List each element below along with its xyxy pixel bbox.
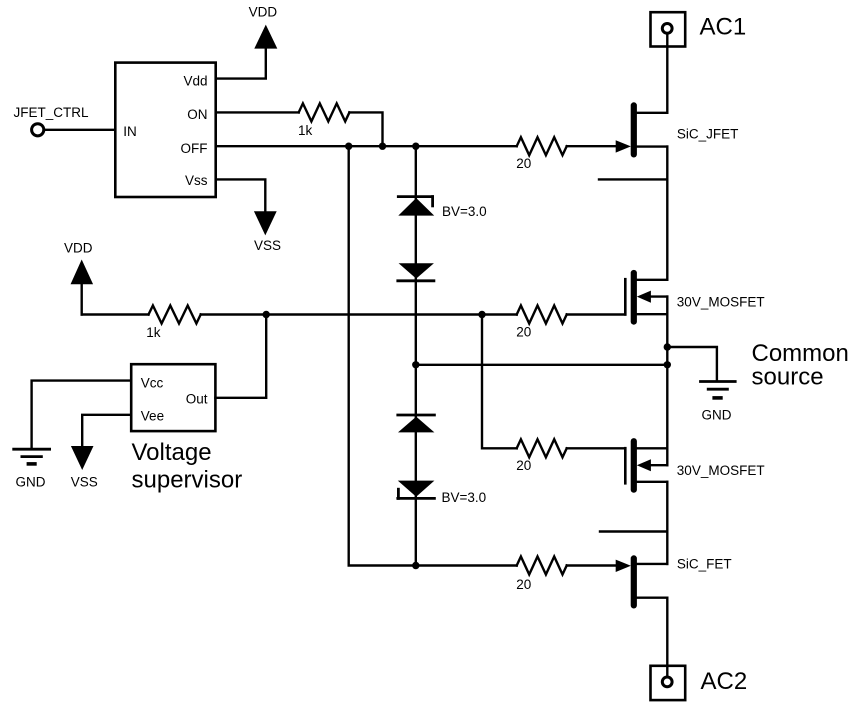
- M2 channel bar: [631, 438, 637, 493]
- resistor R2 20: [517, 137, 567, 155]
- wire R5 to Q2 gate: [567, 564, 617, 566]
- terminal AC2 square: [651, 666, 686, 700]
- resistor R6 1k: [149, 306, 201, 324]
- wire Vss pin to VSS arrow: [216, 179, 265, 212]
- wire mid gate line: [201, 313, 517, 315]
- Q2 gate arrow: [616, 560, 631, 572]
- svg-text:Vss: Vss: [185, 173, 208, 188]
- resistor R4 20: [517, 439, 567, 457]
- junction dot zener mid: [412, 361, 419, 368]
- wire R1 to OFF net: [349, 112, 382, 146]
- wire ON pin to resistor R1: [216, 111, 299, 113]
- svg-text:supervisor: supervisor: [132, 467, 243, 494]
- M2 source lead: [637, 447, 668, 449]
- junction dot OFF/zener chain: [412, 143, 419, 150]
- voltage supervisor U2 box: [131, 364, 215, 431]
- Q2 source lead: [637, 563, 668, 565]
- terminal AC2 circle: [662, 677, 672, 687]
- resistor R1 1k: [299, 103, 350, 121]
- wire JFET_CTRL to IN: [45, 129, 115, 131]
- svg-text:OFF: OFF: [181, 141, 208, 156]
- zener D4 triangle: [398, 481, 435, 497]
- wire R2 to Q1 gate: [567, 145, 617, 147]
- ground GND right bar3: [714, 396, 721, 400]
- terminal JFET_CTRL: [32, 124, 44, 136]
- wire AC1 to Q1 drain: [666, 34, 668, 113]
- junction dot mid/Out: [263, 311, 270, 318]
- wire VDD to resistor R6: [82, 313, 149, 315]
- M1 body arrow: [637, 291, 651, 303]
- zener chain wire: [415, 146, 417, 565]
- svg-text:ON: ON: [187, 107, 207, 122]
- svg-text:1k: 1k: [146, 325, 161, 340]
- ground GND right bar2: [708, 388, 727, 391]
- wire R3 to M1 gate: [567, 313, 626, 315]
- ground GND left bar1: [14, 448, 50, 451]
- zener D1 triangle: [398, 198, 434, 216]
- transistor Q1 SiC_JFET channel bar: [631, 102, 637, 157]
- svg-text:20: 20: [516, 324, 531, 339]
- ground GND left bar2: [22, 455, 42, 458]
- junction dot mid/M2 gate drop: [478, 311, 485, 318]
- transistor M2 30V_MOSFET gate bar: [624, 448, 627, 483]
- power VDD arrow top: [256, 27, 275, 47]
- svg-text:source: source: [752, 364, 824, 391]
- svg-text:20: 20: [516, 577, 531, 592]
- svg-text:Vee: Vee: [141, 408, 164, 423]
- M2 drain lead: [637, 481, 668, 483]
- power VSS arrow left: [73, 447, 92, 467]
- svg-text:AC2: AC2: [701, 668, 748, 695]
- Q1 source stub line: [599, 178, 667, 180]
- svg-text:BV=3.0: BV=3.0: [442, 204, 487, 219]
- svg-text:Out: Out: [186, 391, 208, 406]
- ground GND right bar1: [701, 380, 736, 383]
- wire drop to resistor R4: [482, 315, 517, 449]
- svg-text:VDD: VDD: [249, 4, 278, 19]
- Q1 gate arrow: [616, 140, 631, 152]
- M1 body lead: [650, 295, 667, 297]
- wire common source rail: [666, 297, 668, 466]
- M1 channel bar: [631, 270, 637, 325]
- svg-text:Voltage: Voltage: [132, 439, 212, 466]
- svg-text:Vcc: Vcc: [141, 376, 164, 391]
- wire M2 drain rail down: [666, 482, 668, 564]
- svg-text:VSS: VSS: [254, 238, 281, 253]
- wire Vee to VSS arrow: [82, 415, 131, 448]
- wire common source to GND: [667, 347, 717, 380]
- resistor R3 20: [517, 306, 567, 324]
- terminal AC1 circle: [662, 24, 672, 34]
- wire OFF to SiC_FET gate line: [349, 146, 517, 565]
- svg-text:SiC_JFET: SiC_JFET: [677, 126, 739, 141]
- Q2 drain lead: [637, 597, 668, 599]
- M1 drain lead: [637, 279, 668, 281]
- terminal AC1 square: [651, 12, 686, 46]
- transistor Q2 SiC_FET channel bar: [631, 555, 637, 608]
- zener D1 cathode hook: [431, 197, 434, 206]
- junction dot common source / GND stub: [664, 343, 671, 350]
- zener D2 triangle: [399, 263, 434, 278]
- svg-text:20: 20: [516, 458, 531, 473]
- M2 body arrow: [637, 459, 651, 471]
- power VDD arrow left: [72, 262, 91, 283]
- gate driver U1 box: [115, 63, 215, 197]
- svg-text:30V_MOSFET: 30V_MOSFET: [677, 463, 765, 478]
- Q1 drain lead: [637, 112, 668, 114]
- junction dot OFF/R1: [379, 143, 386, 150]
- wire Out to mid line: [215, 315, 266, 398]
- junction dot zener bottom: [412, 562, 419, 569]
- svg-text:GND: GND: [702, 408, 732, 423]
- junction dot OFF/SiC_FET gate drop: [345, 143, 352, 150]
- svg-text:Vdd: Vdd: [183, 74, 207, 89]
- ground GND left bar3: [28, 462, 35, 466]
- Q1 source lead: [637, 145, 668, 147]
- M1 source lead: [637, 313, 668, 315]
- svg-text:BV=3.0: BV=3.0: [442, 490, 487, 505]
- zener D4 cathode bar: [398, 497, 435, 500]
- wire Vdd pin to VDD arrow: [216, 47, 266, 79]
- resistor R5 20: [517, 557, 567, 575]
- svg-text:1k: 1k: [298, 123, 313, 138]
- junction dot common source / zener mid: [664, 361, 671, 368]
- svg-text:30V_MOSFET: 30V_MOSFET: [677, 294, 765, 309]
- wire Vcc to GND: [32, 381, 132, 448]
- Q2 source stub line: [600, 530, 667, 532]
- zener D4 cathode hook: [397, 489, 400, 498]
- wire zener mid to common source: [416, 364, 668, 366]
- wire OFF pin line: [216, 145, 517, 147]
- svg-text:GND: GND: [16, 475, 46, 490]
- M2 body lead: [650, 464, 667, 466]
- svg-text:VDD: VDD: [64, 241, 93, 256]
- zener D3 cathode bar: [398, 414, 435, 417]
- power VSS arrow top: [256, 212, 275, 232]
- wire Q1 source rail down: [666, 147, 668, 280]
- wire Q2 drain to AC2: [666, 598, 668, 677]
- zener D3 triangle: [398, 417, 434, 433]
- wire R4 to M2 gate: [567, 447, 626, 449]
- transistor M1 30V_MOSFET gate bar: [624, 279, 627, 314]
- svg-text:20: 20: [516, 156, 531, 171]
- svg-text:AC1: AC1: [700, 13, 747, 40]
- zener D2 cathode bar: [398, 279, 434, 282]
- svg-text:JFET_CTRL: JFET_CTRL: [14, 105, 90, 120]
- svg-text:SiC_FET: SiC_FET: [677, 556, 732, 571]
- svg-text:VSS: VSS: [71, 475, 98, 490]
- wire VDD arrow to mid line: [80, 283, 82, 315]
- svg-text:IN: IN: [123, 124, 137, 139]
- zener D1 cathode bar: [398, 195, 432, 198]
